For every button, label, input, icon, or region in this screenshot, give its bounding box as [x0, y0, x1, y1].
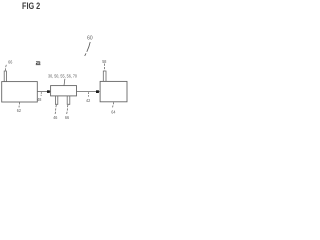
svg-text:42: 42 — [86, 98, 91, 103]
svg-text:30, 50, 55, 56, 70: 30, 50, 55, 56, 70 — [48, 73, 77, 79]
svg-text:62: 62 — [17, 108, 22, 113]
svg-text:FIG 2: FIG 2 — [22, 1, 40, 11]
svg-text:66: 66 — [8, 59, 13, 64]
svg-text:48: 48 — [37, 97, 42, 102]
svg-text:60: 60 — [87, 36, 93, 42]
svg-text:58: 58 — [102, 59, 107, 64]
svg-text:25: 25 — [36, 60, 41, 65]
svg-text:66: 66 — [65, 115, 70, 120]
svg-text:64: 64 — [111, 109, 116, 114]
svg-text:46: 46 — [53, 115, 58, 120]
